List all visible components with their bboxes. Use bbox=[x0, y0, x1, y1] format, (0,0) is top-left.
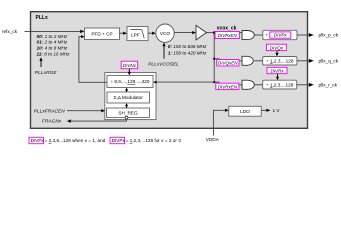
svg-text:00: 1 to 2 MHz: 00: 1 to 2 MHz bbox=[37, 34, 68, 39]
LDO box bbox=[229, 106, 261, 116]
outer fractional block box bbox=[105, 73, 156, 120]
svg-text:DIVQx: DIVQx bbox=[270, 45, 284, 50]
arrow DIVQx down bbox=[276, 51, 278, 55]
svg-text:÷ 8,9,...,129,...,420: ÷ 8,9,...,129,...,420 bbox=[110, 79, 149, 84]
wire VCO to buffer bbox=[174, 32, 193, 34]
svg-text:DIVPx: DIVPx bbox=[112, 138, 126, 143]
wire R out bbox=[297, 84, 309, 86]
wire VDDA to LDO bbox=[213, 110, 225, 136]
svg-text:pllx_q_ck: pllx_q_ck bbox=[319, 58, 339, 63]
svg-text:= 1,2,3,...128 for x = 2 or 3: = 1,2,3,...128 for x = 2 or 3 bbox=[126, 138, 182, 143]
svg-text:DIVPx: DIVPx bbox=[274, 33, 288, 38]
wire PLLxFRACEN to SH_REG bbox=[67, 110, 102, 112]
divider R box bbox=[263, 80, 297, 89]
divider P box bbox=[263, 30, 297, 39]
wire junction to R gate bbox=[214, 82, 242, 85]
svg-text:DIVPxEN: DIVPxEN bbox=[218, 33, 238, 38]
divider Q box bbox=[263, 57, 297, 66]
svg-text:PLLxVCOSEL: PLLxVCOSEL bbox=[148, 62, 179, 67]
AND gate P enable bbox=[242, 31, 254, 40]
svg-text:Σ,Δ Modulator: Σ,Δ Modulator bbox=[114, 95, 144, 100]
wire refx_ck into PFD bbox=[25, 30, 81, 32]
arrow SH_REG to modulator bbox=[126, 106, 128, 108]
arrow modulator to divider N bbox=[126, 90, 128, 92]
svg-text:DIVNx: DIVNx bbox=[123, 63, 137, 68]
svg-text:0: 192 to 836 MHz: 0: 192 to 836 MHz bbox=[168, 44, 207, 49]
box DIVQxEN bbox=[217, 60, 239, 67]
SH_REG box bbox=[107, 108, 150, 117]
svg-text:÷: ÷ bbox=[265, 33, 268, 38]
footnote DIVPx box 1 bbox=[29, 137, 44, 143]
bubble on SH_REG clock input bbox=[125, 116, 128, 119]
footnote DIVPx box 2 bbox=[110, 137, 125, 143]
junction feedback dot bbox=[213, 81, 215, 83]
wire Q gate to divider bbox=[254, 60, 262, 62]
svg-text:DIVQxEN: DIVQxEN bbox=[218, 61, 238, 66]
box DIVPxEN bbox=[215, 32, 239, 39]
svg-text:PLLxRGE: PLLxRGE bbox=[35, 70, 58, 75]
wire FRACNx bbox=[70, 119, 127, 121]
svg-text:PFD + CP: PFD + CP bbox=[91, 31, 112, 36]
arrow PLLxVCOSEL up into VCO bbox=[163, 45, 165, 59]
svg-text:VDDA: VDDA bbox=[206, 137, 220, 142]
VCO circle bbox=[156, 24, 174, 42]
wire Q out bbox=[297, 60, 309, 62]
svg-text:÷ 1,2,3,...128: ÷ 1,2,3,...128 bbox=[266, 82, 294, 87]
wire PFD to LPF bbox=[120, 32, 124, 34]
wire LDO out bbox=[261, 109, 267, 111]
svg-text:01: 2 to 4 MHz: 01: 2 to 4 MHz bbox=[37, 40, 68, 45]
vertical bus wire from node bbox=[213, 33, 215, 83]
svg-text:÷ 1,2,3,...128: ÷ 1,2,3,...128 bbox=[266, 58, 294, 63]
buffer amplifier bbox=[196, 25, 207, 40]
divider N box bbox=[107, 75, 153, 87]
svg-text:LDO: LDO bbox=[240, 109, 250, 114]
arrow into divider N right edge bbox=[153, 81, 157, 84]
svg-text:1 V: 1 V bbox=[273, 108, 281, 113]
svg-text:PLLxFRACEN: PLLxFRACEN bbox=[34, 108, 65, 113]
svg-text:DIVRx: DIVRx bbox=[270, 68, 284, 73]
svg-text:DIVRxEN: DIVRxEN bbox=[218, 84, 238, 89]
svg-text:vcox_ck: vcox_ck bbox=[217, 26, 237, 32]
wire P gate to divider bbox=[254, 34, 262, 36]
arrow DIVRx down bbox=[277, 74, 279, 78]
svg-text:10: 4 to 8 MHz: 10: 4 to 8 MHz bbox=[37, 46, 68, 51]
svg-text:FRACNx: FRACNx bbox=[42, 119, 62, 124]
wire R gate to divider bbox=[254, 84, 262, 86]
wire LPF to VCO bbox=[148, 32, 153, 34]
AND gate R enable bbox=[242, 80, 254, 89]
svg-text:VCO: VCO bbox=[160, 31, 171, 36]
label DIVRx box bbox=[267, 67, 287, 73]
wire divider N to PFD bbox=[79, 37, 107, 83]
svg-text:LPF: LPF bbox=[131, 33, 140, 38]
svg-text:SH_REG: SH_REG bbox=[118, 110, 138, 115]
AND gate Q enable bbox=[242, 56, 253, 65]
Sigma Delta Modulator box bbox=[107, 92, 150, 103]
svg-text:11: 8 to 16 MHz: 11: 8 to 16 MHz bbox=[37, 51, 71, 56]
arrow PLLxRGE up bbox=[40, 60, 42, 68]
svg-text:= 2,4,6...128 when x = 1, and: = 2,4,6...128 when x = 1, and bbox=[45, 138, 106, 143]
svg-text:pllx_r_ck: pllx_r_ck bbox=[319, 82, 338, 87]
svg-text:DIVPx: DIVPx bbox=[31, 138, 45, 143]
svg-text:pllx_p_ck: pllx_p_ck bbox=[319, 33, 339, 38]
wire node to P gate bbox=[214, 32, 242, 34]
arrow DIVNx down bbox=[128, 69, 130, 73]
wire feedback junction to fractional block bbox=[153, 81, 214, 83]
node vcox_ck junction dot bbox=[213, 31, 216, 34]
junction q dot bbox=[213, 58, 215, 60]
label DIVNx box bbox=[121, 61, 138, 68]
PLL block outline bbox=[31, 12, 308, 129]
PFD + CP box U1 bbox=[85, 28, 120, 39]
svg-text:1: 150 to 420 MHz: 1: 150 to 420 MHz bbox=[168, 51, 207, 56]
label DIVQx box bbox=[266, 44, 286, 50]
box DIVRxEN bbox=[216, 83, 239, 89]
wire junction to Q gate bbox=[214, 59, 242, 61]
wire P out bbox=[297, 34, 309, 36]
svg-text:PLLx: PLLx bbox=[36, 15, 48, 21]
wire buffer to node bbox=[207, 32, 215, 34]
svg-text:refx_ck: refx_ck bbox=[2, 29, 18, 34]
LPF box bbox=[127, 27, 148, 41]
